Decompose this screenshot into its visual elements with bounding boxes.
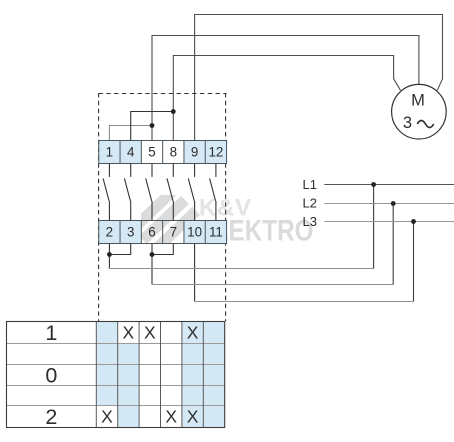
wire: terminal 8 to motor lead (left) <box>173 56 400 141</box>
L2 supply line <box>324 203 454 205</box>
terminal row fills (top row 1 4 5 8 9 12) <box>99 141 227 164</box>
node: junction terminals 1-5 <box>150 123 155 128</box>
L1 supply line <box>324 184 454 186</box>
wire: terminal 7 tie to terminal 6 <box>152 244 173 255</box>
svg-text:5: 5 <box>148 145 155 160</box>
svg-text:X: X <box>187 323 199 343</box>
terminal strip bottom row borders <box>99 221 227 244</box>
svg-text:0: 0 <box>45 363 57 387</box>
svg-text:X: X <box>165 407 177 427</box>
wire: terminal 5 to motor lead (middle) <box>152 36 419 141</box>
svg-text:8: 8 <box>170 145 177 160</box>
svg-text:11: 11 <box>209 225 223 240</box>
svg-text:L1: L1 <box>303 177 317 192</box>
wire: terminal 2 down <box>108 244 110 269</box>
svg-text:7: 7 <box>170 225 177 240</box>
node: L2 tap <box>391 201 396 206</box>
blue cells row 1 <box>96 321 117 343</box>
wire: terminal 3 tie to terminal 2 <box>109 244 130 255</box>
contact pole 12-11 <box>215 164 217 177</box>
contact pole 4-3 <box>130 164 132 177</box>
svg-text:4: 4 <box>127 145 135 160</box>
svg-text:2: 2 <box>45 405 57 429</box>
contact pole 9-10 <box>194 164 196 177</box>
svg-text:9: 9 <box>191 145 198 160</box>
svg-text:X: X <box>144 323 156 343</box>
svg-text:2: 2 <box>106 225 113 240</box>
blue cells row 4 <box>96 386 139 406</box>
motor M 3~ <box>392 84 447 139</box>
wire: terminal 6 down <box>151 244 153 285</box>
svg-text:12: 12 <box>208 145 223 160</box>
node: junction terminals 6-7 <box>150 252 155 257</box>
terminal numbers top row <box>106 145 224 160</box>
node: L1 tap <box>371 182 376 187</box>
contact pole 8-7 <box>172 164 174 177</box>
blue cells row 5 <box>118 406 139 428</box>
node: L3 tap <box>411 219 416 224</box>
wire: terminal 4 jog to terminal 8 <box>131 112 174 141</box>
wire: terminal 10 down <box>194 244 196 302</box>
blue cells row 2 <box>96 344 139 365</box>
switching table <box>7 321 225 429</box>
X marks row 1 <box>123 323 199 343</box>
inner horizontal grid lines <box>7 344 225 406</box>
X marks row 2 <box>101 407 199 427</box>
wire: terminal 9 to motor lead (right) <box>195 15 443 141</box>
wire: terminal 1 jog to terminal 5 <box>109 126 152 141</box>
svg-text:1: 1 <box>106 145 113 160</box>
svg-text:10: 10 <box>187 225 202 240</box>
wire: L3 feed to terminal 10 <box>195 301 414 303</box>
svg-text:L2: L2 <box>303 195 317 210</box>
svg-text:3: 3 <box>127 225 134 240</box>
contact pole 1-2 <box>108 164 110 177</box>
svg-text:X: X <box>123 323 135 343</box>
blue cells row 3 <box>96 365 139 386</box>
wire: L2 feed to terminals 6-7 <box>152 284 393 286</box>
terminal strip top row borders <box>99 141 227 164</box>
terminal row fills (bottom row 2 3 6 7 10 11) <box>99 221 227 244</box>
svg-text:X: X <box>101 407 113 427</box>
table outer border <box>7 322 225 428</box>
terminal numbers bottom row <box>106 225 223 240</box>
svg-text:M: M <box>411 92 425 110</box>
switch contacts (6 poles) <box>103 164 216 221</box>
dashed switch enclosure <box>99 93 227 321</box>
svg-text:L3: L3 <box>303 214 317 229</box>
node: junction terminals 4-8 <box>171 109 176 114</box>
svg-text:6: 6 <box>148 225 155 240</box>
svg-text:3: 3 <box>403 114 412 132</box>
wire: L1 feed to terminals 2-3 <box>109 268 373 270</box>
contact pole 5-6 <box>151 164 153 177</box>
L3 supply line <box>324 221 454 223</box>
svg-text:1: 1 <box>45 321 57 345</box>
inner vertical grid lines <box>96 321 203 427</box>
node: junction terminals 2-3 <box>107 252 112 257</box>
watermark K&V ELEKTRO logo <box>133 189 314 251</box>
svg-text:X: X <box>187 407 199 427</box>
